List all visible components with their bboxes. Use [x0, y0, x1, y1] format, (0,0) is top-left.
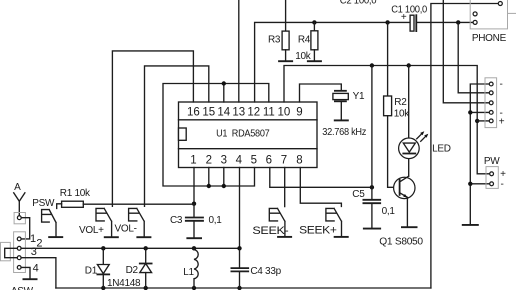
svg-text:4: 4 — [236, 155, 243, 167]
wire B top edge to connector pin3 — [443, 0, 489, 103]
push button SEEK+ — [299, 208, 349, 237]
LED with light arrows — [399, 66, 451, 177]
node D1 on bottom bus — [101, 286, 105, 290]
node LED branch on supply rail — [407, 63, 411, 67]
wire ASW pin4 to ground — [21, 267, 37, 279]
resistor R1 10k — [60, 188, 91, 208]
wire pin13 to top edge (C2 net) — [238, 0, 240, 102]
svg-text:13: 13 — [232, 107, 245, 119]
transistor Q1 S8050 — [379, 176, 423, 247]
svg-text:+: + — [499, 117, 505, 128]
connector 5-pin (audio/I2C header) — [485, 78, 505, 128]
resistor R3 — [268, 31, 289, 50]
svg-text:14: 14 — [217, 107, 230, 119]
svg-text:32.768 kHz: 32.768 kHz — [322, 127, 366, 138]
svg-text:R2: R2 — [394, 97, 407, 108]
IC U1 RDA5807 chip body — [179, 102, 318, 168]
svg-text:8: 8 — [296, 155, 302, 167]
push button SEEK- — [252, 208, 292, 237]
node L1 on tank bus — [192, 246, 196, 250]
node pin3 on ground bus — [222, 184, 226, 188]
node L1 on bottom bus — [192, 286, 196, 290]
diode D2 — [107, 248, 152, 289]
wire pin1 down to C3 node — [193, 168, 195, 204]
svg-text:1: 1 — [190, 155, 196, 167]
U1 pin numbers bottom row 1..8 — [190, 155, 303, 167]
wire C1 right to PHONE lower pin — [417, 21, 473, 23]
svg-text:0,1: 0,1 — [382, 206, 396, 217]
svg-text:R1 10k: R1 10k — [60, 188, 91, 199]
wire supply rail pin10 to PW+ (with right-side drop) — [284, 66, 490, 174]
svg-text:L1: L1 — [183, 267, 194, 278]
svg-text:D1: D1 — [85, 265, 98, 276]
push button PSW — [32, 198, 63, 237]
ground under R3 — [278, 50, 293, 61]
antenna jack connector — [14, 213, 25, 224]
svg-text:9: 9 — [296, 107, 302, 119]
node C5 top — [370, 185, 374, 189]
svg-text:2: 2 — [206, 155, 212, 167]
svg-text:D2: D2 — [126, 265, 139, 276]
svg-text:C5: C5 — [352, 189, 365, 200]
svg-text:15: 15 — [202, 107, 215, 119]
svg-text:1N4148: 1N4148 — [107, 278, 141, 289]
wire bottom ground bus — [56, 287, 431, 289]
wire connector pin5 branch — [477, 120, 489, 122]
node R4 top on pin12 rail — [312, 20, 316, 24]
ground under R4 — [307, 50, 322, 61]
node connector pin5 branch on supply drop — [475, 119, 479, 123]
ground under C3 — [186, 221, 202, 238]
svg-text:4: 4 — [33, 262, 39, 274]
wire pin7 to SEEK- — [284, 168, 286, 207]
connector PW (power) — [484, 156, 506, 190]
node R2 top on pin12 rail — [385, 20, 389, 24]
svg-text:C2 100,0: C2 100,0 — [340, 0, 377, 6]
capacitor C5 0,1 — [352, 66, 395, 217]
node D2 on bottom bus — [144, 286, 148, 290]
wire R2 bottom to Q1 base — [388, 116, 400, 188]
node wire C branch on pin12 rail — [456, 20, 460, 24]
svg-text:C1 100,0: C1 100,0 — [391, 4, 427, 15]
push button VOL+ — [79, 208, 119, 237]
ground under Q1 emitter — [401, 198, 418, 228]
svg-text:+: + — [401, 12, 407, 23]
svg-text:10k: 10k — [394, 109, 411, 120]
node C4/pin4 on tank bus — [237, 246, 241, 250]
wire pin4 down to tank node — [239, 168, 241, 249]
svg-text:Q1 S8050: Q1 S8050 — [379, 236, 423, 247]
wire pin16 to VOL+ (nested corner 1) — [112, 51, 193, 206]
svg-text:U1 RDA5807: U1 RDA5807 — [216, 128, 270, 140]
svg-text:PSW: PSW — [32, 198, 55, 209]
svg-text:5: 5 — [251, 155, 257, 167]
svg-text:1: 1 — [30, 233, 36, 245]
svg-text:SEEK-: SEEK- — [252, 225, 289, 237]
svg-text:C3: C3 — [170, 215, 183, 226]
svg-text:10k: 10k — [295, 51, 312, 62]
node pin14 on corner-3 wire — [222, 81, 226, 85]
node pin2 on ground bus — [207, 184, 211, 188]
svg-text:-: - — [501, 179, 504, 190]
wire PHONE top pin down left side to bottom bus (wire A) — [431, 4, 499, 289]
svg-text:0,1: 0,1 — [209, 215, 223, 226]
svg-text:Y1: Y1 — [353, 91, 365, 102]
svg-text:10: 10 — [278, 107, 291, 119]
node pin1/C3/R1 junction — [192, 202, 196, 206]
svg-text:11: 11 — [263, 107, 275, 119]
svg-text:ASW: ASW — [11, 286, 34, 290]
wire PW- branch — [470, 183, 489, 185]
wire antenna jack to ASW pin1 — [21, 218, 30, 239]
wire pin8 to SEEK+ — [300, 168, 341, 207]
wire ASW pin3 to bottom bus — [21, 258, 56, 288]
svg-text:12: 12 — [247, 107, 260, 119]
inductor L1 — [183, 248, 198, 288]
node D1 on tank bus — [101, 246, 105, 250]
capacitor C1 100,0 polarized — [391, 4, 427, 31]
U1 pin numbers top row 16..9 — [187, 107, 303, 119]
ground bar of right ground drop — [462, 223, 479, 226]
connector PHONE — [470, 0, 516, 44]
resistor R2 10k — [384, 22, 411, 119]
antenna A — [14, 182, 25, 216]
wire pin6 to C5 top node — [270, 168, 372, 188]
jumper housing at left edge — [1, 242, 11, 260]
diode D1 1N4148 — [85, 248, 109, 288]
capacitor C4 33p — [231, 248, 281, 288]
wire pin15 to VOL- (nested corner 2) — [145, 66, 209, 206]
node C4 on bottom bus — [237, 286, 241, 290]
svg-text:C4 33p: C4 33p — [250, 266, 281, 277]
node D2 on tank bus — [144, 246, 148, 250]
wire main tank bus (ASW pin2 to C4 node) — [21, 247, 239, 249]
wire ground drop: connector pin1, pin4, PW- to ground — [470, 84, 489, 224]
wire pin3 to ground bus — [223, 168, 225, 187]
svg-text:SEEK+: SEEK+ — [299, 225, 337, 237]
svg-text:6: 6 — [266, 155, 272, 167]
wire pin14 stub — [223, 84, 225, 103]
svg-text:VOL+: VOL+ — [79, 225, 104, 236]
svg-text:A: A — [14, 182, 21, 193]
node PW- on ground drop — [468, 182, 472, 186]
svg-text:7: 7 — [281, 155, 287, 167]
svg-text:-: - — [500, 79, 503, 90]
svg-text:PHONE: PHONE — [472, 33, 507, 44]
push button VOL- — [115, 208, 152, 237]
node connector pin4 on ground drop — [468, 110, 472, 114]
crystal Y1 — [322, 91, 366, 138]
wire pin2 to ground bus — [208, 168, 210, 187]
connector ASW — [11, 232, 43, 290]
svg-text:LED: LED — [432, 143, 451, 154]
capacitor C2 label (clipped at top) — [340, 0, 377, 6]
wire jumper ASW pin2 to pin3 — [5, 248, 18, 257]
wire pin12 rail to C1 left (audio/SDA rail) — [255, 22, 411, 102]
wire R3 top to top edge (C2 net) — [285, 0, 287, 31]
svg-text:VOL-: VOL- — [115, 223, 137, 234]
ground under C5 — [363, 203, 381, 228]
resistor R4 — [295, 22, 318, 61]
svg-text:PW: PW — [484, 156, 500, 167]
svg-text:R4: R4 — [298, 35, 311, 46]
wire C rail to connector pin2 — [458, 22, 489, 92]
ground under Y1 — [334, 101, 349, 120]
capacitor C3 0,1 — [170, 204, 222, 226]
node C5 branch on supply rail — [370, 63, 374, 67]
svg-text:16: 16 — [187, 107, 200, 119]
svg-text:3: 3 — [31, 246, 37, 258]
wire R1 to pin1/C3 node — [83, 203, 194, 205]
wire pin9 to crystal Y1 — [300, 84, 342, 102]
svg-text:R3: R3 — [268, 35, 281, 46]
svg-text:2: 2 — [36, 237, 42, 249]
wire PSW to R1 — [57, 204, 62, 209]
svg-text:3: 3 — [221, 155, 227, 167]
wire pin11+pin14 to ground bus (nested corner 3) and pin5 — [163, 84, 269, 187]
wire connector pin4 branch — [470, 111, 489, 113]
